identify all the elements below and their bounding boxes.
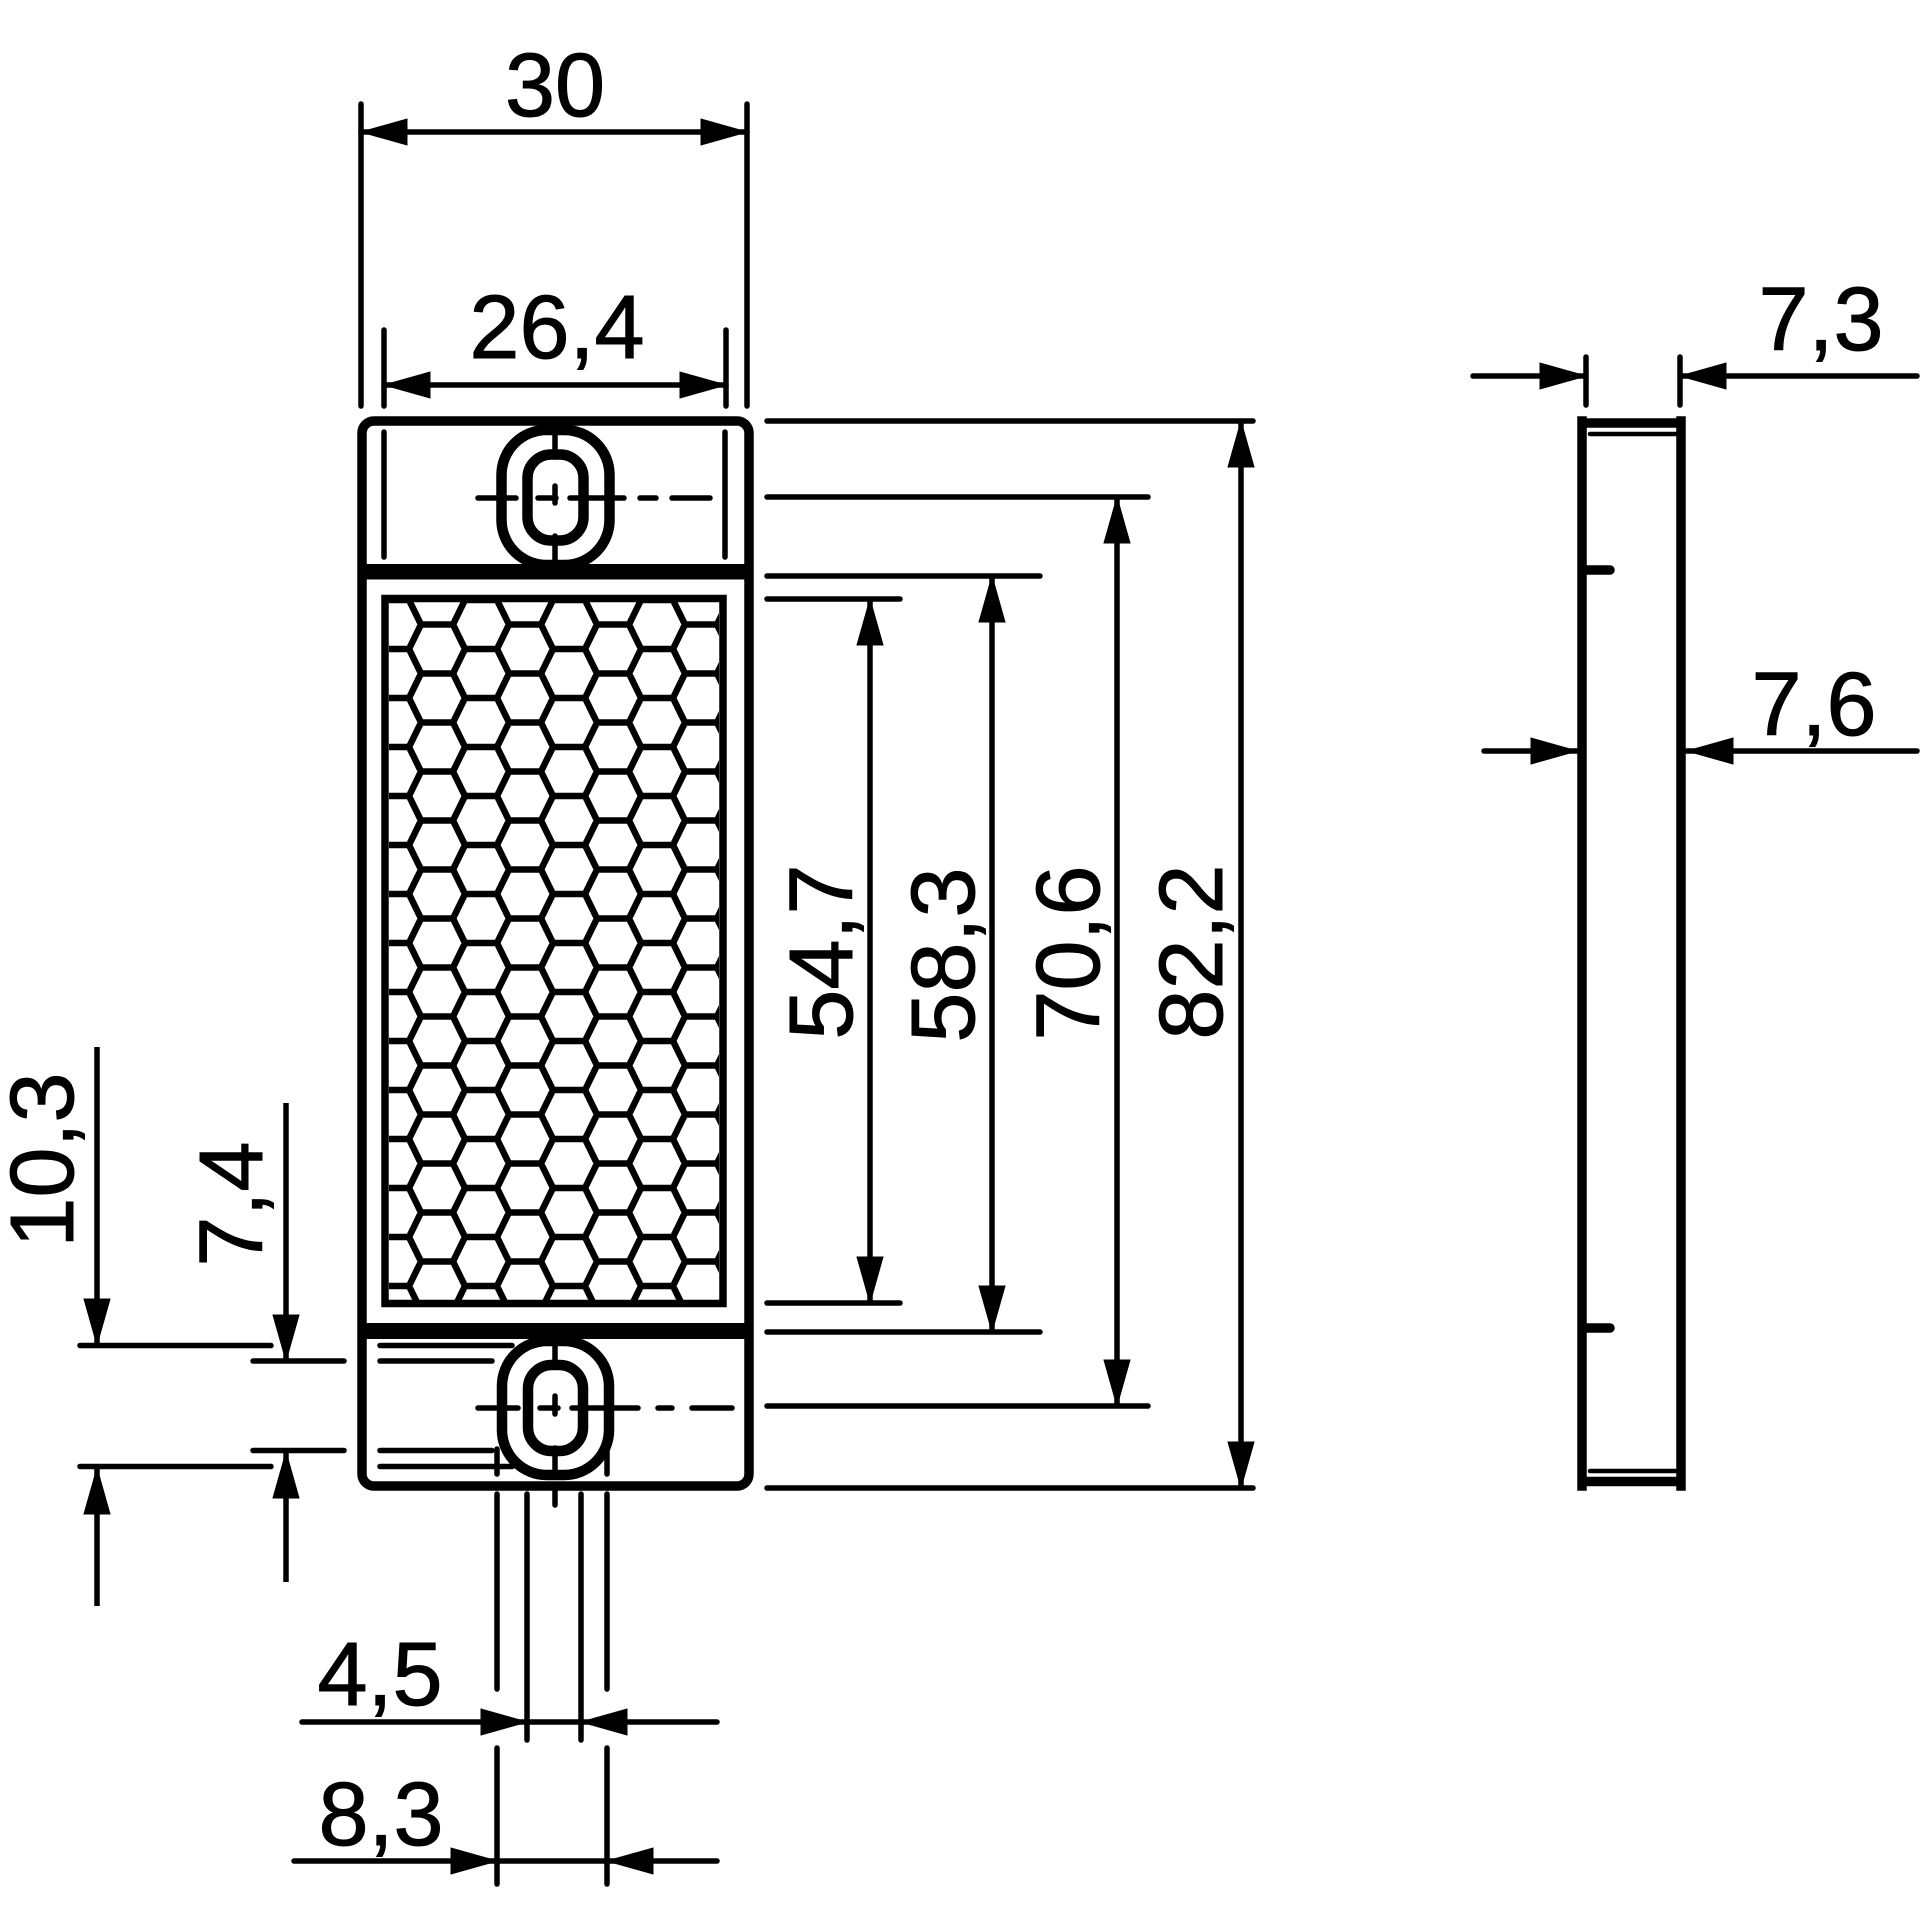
svg-text:8,3: 8,3: [318, 1765, 443, 1865]
dimension 26,4: extension line left: [381, 330, 387, 406]
inner plate edge tick left, top section: [381, 432, 387, 557]
dimension 30: extension line left: [358, 104, 364, 406]
side view: lower clip notch: [1584, 1323, 1610, 1333]
top mounting slot outer oval: [502, 430, 610, 565]
svg-text:70,6: 70,6: [1019, 865, 1119, 1040]
extension line: inner slot bottom tangent (7,4): [253, 1448, 344, 1454]
svg-text:58,3: 58,3: [894, 867, 994, 1042]
top retaining band: [362, 564, 749, 580]
bottom retaining band: [362, 1323, 749, 1339]
dimension 8,3: dimension line with arrows: [294, 1858, 717, 1864]
bottom mounting slot inner hole: [528, 1365, 583, 1451]
dimension 4,5: dimension line with arrows: [302, 1719, 717, 1725]
dimension 58,3: extension lines: [767, 573, 1040, 579]
svg-text:10,3: 10,3: [0, 1072, 93, 1247]
dimension 26,4: dimension line with arrows: [384, 382, 726, 388]
side view: front plate edge top: [1590, 432, 1677, 437]
dimension 7,3: extension ticks: [1583, 357, 1589, 405]
svg-text:7,6: 7,6: [1751, 655, 1876, 755]
dimension 7,6: dimension line with arrows: [1484, 748, 1577, 754]
dimension 30: dimension line with arrows: [361, 129, 747, 135]
dimension 7,4: dimension line upper part: [283, 1103, 289, 1361]
dimension 54,7: extension lines: [767, 596, 900, 602]
dimension 82,2: extension lines: [767, 418, 1253, 424]
front view: reflector body outline: [362, 421, 749, 1486]
dimension 10,3: dimension line lower part: [94, 1468, 100, 1606]
svg-text:7,3: 7,3: [1758, 270, 1883, 370]
dimension 7,3: dimension line with arrows: [1473, 373, 1586, 379]
inner plate edge tick right, top section: [722, 432, 728, 557]
dimension 54,7: dimension line with arrows: [867, 599, 873, 1303]
bottom slot vertical centre line (dash-dot): [552, 1344, 558, 1366]
reflective area frame: [385, 599, 723, 1304]
bottom slot horizontal centre line (dash-dot): [478, 1405, 518, 1411]
svg-text:30: 30: [505, 36, 605, 136]
svg-text:7,4: 7,4: [182, 1141, 282, 1266]
dimension 10,3: dimension line upper part: [94, 1047, 100, 1345]
top slot vertical centre line (dash-dot): [552, 430, 558, 457]
dimension 70,6: extension lines: [767, 494, 1148, 500]
top slot horizontal centre line (dash-dot): [478, 495, 516, 501]
side view: upper clip notch: [1584, 565, 1610, 575]
side view: front plate edge bottom: [1590, 1469, 1677, 1474]
svg-text:82,2: 82,2: [1142, 864, 1242, 1039]
dimension 70,6: dimension line with arrows: [1114, 497, 1120, 1406]
dimension 82,2: dimension line with arrows: [1238, 421, 1244, 1488]
dimension 7,4: dimension line lower part: [283, 1452, 289, 1582]
svg-text:26,4: 26,4: [469, 278, 644, 378]
dimension 30: extension line right: [744, 104, 750, 406]
dimension 26,4: extension line right: [723, 330, 729, 406]
bottom mounting slot outer oval: [502, 1341, 609, 1475]
svg-text:54,7: 54,7: [772, 864, 872, 1039]
top mounting slot inner hole: [528, 455, 584, 541]
extension line: outer slot top tangent (10,3): [80, 1343, 271, 1349]
dimension 58,3: dimension line with arrows: [989, 576, 995, 1332]
extension lines below body for 4,5 and 8,3: [494, 1449, 500, 1474]
extension line: inner slot top tangent (7,4): [253, 1358, 344, 1364]
side view: profile outline: [1582, 421, 1681, 1486]
extension line: outer slot bottom tangent (10,3): [80, 1464, 271, 1470]
svg-text:4,5: 4,5: [317, 1625, 442, 1725]
